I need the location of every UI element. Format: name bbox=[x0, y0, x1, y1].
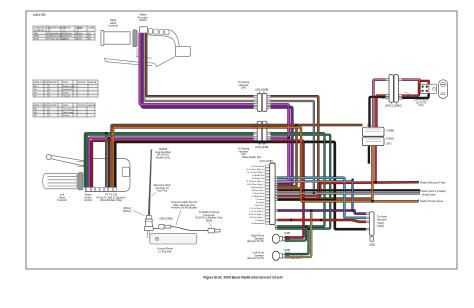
svg-text:[28AC] [28BC]: [28AC] [28BC] bbox=[385, 104, 402, 108]
switch housing pad bbox=[175, 46, 190, 56]
left control housing bbox=[85, 159, 130, 192]
svg-text:Only: Only bbox=[418, 103, 424, 107]
svg-text:15 Lt Rear Spkr (+): 15 Lt Rear Spkr (+) bbox=[246, 168, 265, 171]
wire red left control to 24A bbox=[92, 141, 254, 188]
svg-text:9 Memory B(+): 9 Memory B(+) bbox=[250, 187, 265, 189]
svg-text:[10B]: [10B] bbox=[369, 243, 375, 247]
wire gray 28B down to serial data bbox=[271, 101, 314, 193]
svg-text:8 Rear Gnd 2: 8 Rear Gnd 2 bbox=[252, 190, 266, 192]
svg-text:Power: Power bbox=[63, 92, 69, 94]
wire brown 28B down right side bbox=[271, 96, 374, 198]
svg-text:Switch: Switch bbox=[139, 18, 147, 22]
svg-text:14 Lt Rear Spkr (-): 14 Lt Rear Spkr (-) bbox=[247, 171, 265, 174]
switch buttons bbox=[149, 29, 170, 35]
svg-text:Tour Pak: Tour Pak bbox=[157, 189, 168, 193]
svg-text:[24A] [24B]: [24A] [24B] bbox=[255, 145, 268, 149]
wire magenta left control to 24A bbox=[89, 138, 253, 188]
radio pin stubs right bbox=[275, 177, 277, 230]
wire gray radio stub bbox=[278, 180, 352, 182]
wire gray switch to 28A bbox=[144, 33, 253, 101]
svg-text:24A PIN: 24A PIN bbox=[49, 104, 57, 107]
wire orange 249A to power fuse bbox=[371, 146, 373, 202]
accessory 4-pin block bbox=[420, 84, 429, 93]
wire green2 24B to radio bbox=[271, 135, 331, 229]
svg-text:Behind fairing: Behind fairing bbox=[50, 36, 62, 38]
wire green branch right speaker bbox=[285, 226, 306, 240]
pin labels 24A 24B bbox=[250, 125, 275, 144]
svg-text:1 Lt Frt Spkr (-): 1 Lt Frt Spkr (-) bbox=[250, 210, 265, 213]
wire red 249A to memory fuse bbox=[375, 146, 377, 182]
wire magenta switch to 28A bbox=[140, 33, 254, 105]
label radio power fuse bbox=[417, 199, 419, 202]
connector 28A 28B bbox=[257, 93, 267, 111]
wire violet 28B to radio bbox=[271, 107, 292, 184]
svg-text:GAUGE: GAUGE bbox=[88, 104, 96, 107]
radio pin boxes bbox=[265, 165, 269, 224]
svg-text:2 Lt Frt Spkr (+): 2 Lt Frt Spkr (+) bbox=[250, 207, 265, 210]
svg-text:Base Radio (9n): Base Radio (9n) bbox=[243, 155, 262, 159]
svg-text:LOCATION: LOCATION bbox=[34, 29, 45, 32]
svg-text:[249A]: [249A] bbox=[387, 137, 395, 141]
switch housing outline bbox=[147, 30, 180, 47]
svg-text:Radio Power Fuse: Radio Power Fuse bbox=[420, 199, 443, 203]
svg-text:24B PIN: 24B PIN bbox=[78, 105, 86, 107]
wire pink 249B to 28AC bbox=[373, 80, 385, 127]
wire gray serial data bbox=[278, 192, 421, 194]
wire violet switch to 28A bbox=[142, 33, 253, 107]
speaker left front bbox=[272, 251, 279, 260]
wire olive stub bbox=[105, 133, 107, 187]
parts table 1 bbox=[33, 26, 95, 40]
ground plane box bbox=[150, 234, 197, 244]
svg-text:4 Ignition: 4 Ignition bbox=[256, 201, 265, 204]
audio harness connector bbox=[369, 212, 374, 235]
wire red 249B to 28AC bbox=[376, 96, 385, 128]
wire black rear gnd bbox=[278, 189, 421, 191]
wire black 249B to 28AC bbox=[370, 97, 386, 127]
svg-text:[249B]: [249B] bbox=[387, 129, 395, 133]
wire green1 left control to 24A bbox=[85, 133, 254, 187]
wire brown riser to radio bbox=[278, 125, 297, 186]
svg-text:13 Audio Pwr: 13 Audio Pwr bbox=[252, 174, 265, 177]
radio connector 27A 27B bbox=[271, 161, 274, 164]
svg-text:Battery: Battery bbox=[63, 114, 69, 117]
svg-text:(B?): (B?) bbox=[387, 142, 392, 146]
wire red 28BC to outlet bbox=[402, 81, 429, 96]
svg-text:TYPE: TYPE bbox=[65, 28, 71, 30]
border frame bbox=[26, 11, 457, 269]
wire orange left control to power fuse bbox=[113, 127, 418, 201]
svg-text:7 Serial Data: 7 Serial Data bbox=[252, 192, 265, 195]
parts table 3 bbox=[33, 103, 95, 117]
wire red radio memory fuse bbox=[278, 182, 419, 196]
svg-text:(Ultra Models Only): (Ultra Models Only) bbox=[100, 198, 122, 202]
svg-text:[14B]: [14B] bbox=[284, 231, 290, 235]
wire orange radio power fuse bbox=[278, 187, 302, 189]
svg-text:SIZE: SIZE bbox=[79, 28, 84, 30]
accessory plug body bbox=[429, 84, 436, 93]
housing teeth bbox=[87, 187, 117, 191]
svg-text:Present On All Models: Present On All Models bbox=[171, 206, 197, 210]
throttle flange bbox=[133, 30, 137, 47]
connector 24A 24B bbox=[257, 121, 267, 143]
svg-text:CONN: CONN bbox=[88, 28, 94, 30]
svg-text:ed04769: ed04769 bbox=[33, 13, 46, 17]
svg-text:Control: Control bbox=[84, 198, 93, 202]
antenna cable wire bbox=[153, 227, 208, 231]
svg-text:[39C1]: [39C1] bbox=[123, 209, 131, 213]
svg-text:E Rt Frt Spkr (+): E Rt Frt Spkr (+) bbox=[249, 213, 265, 216]
pin labels 28A 28B bbox=[250, 96, 275, 109]
svg-text:std: std bbox=[79, 37, 82, 40]
power outlet socket bbox=[439, 80, 448, 99]
svg-text:6 CB Antenna: 6 CB Antenna bbox=[251, 195, 265, 198]
wire black thick radio stub bbox=[278, 199, 335, 201]
ground stud into plane bbox=[147, 231, 150, 238]
svg-text:12 Audio Gnd: 12 Audio Gnd bbox=[252, 177, 266, 180]
housing notch bbox=[122, 167, 129, 176]
svg-text:249B: 249B bbox=[34, 38, 39, 40]
svg-text:Controls: Controls bbox=[57, 198, 67, 202]
svg-text:[24B]: [24B] bbox=[284, 248, 290, 252]
left hand grip bbox=[43, 174, 77, 189]
wire magenta 28B to radio bbox=[271, 105, 289, 182]
svg-text:Ground: Ground bbox=[63, 96, 70, 98]
radio pin list text bbox=[246, 165, 265, 225]
svg-text:INTERCONN: INTERCONN bbox=[50, 28, 62, 30]
wire pink 28BC to outlet bbox=[402, 80, 419, 84]
wire tan to left speaker bbox=[285, 211, 312, 258]
svg-text:16 Orientation: 16 Orientation bbox=[251, 165, 265, 168]
label radio memory fuse bbox=[417, 181, 419, 184]
junction dots bbox=[105, 124, 377, 230]
svg-text:WIRE COLOR: WIRE COLOR bbox=[34, 82, 47, 84]
wire green branch left speaker bbox=[285, 229, 309, 254]
svg-text:(Except FLHT): (Except FLHT) bbox=[247, 239, 264, 243]
speaker right front bbox=[272, 234, 279, 243]
svg-text:Controls: Controls bbox=[108, 24, 118, 28]
switch housing connector bbox=[139, 27, 147, 33]
wire black 28BC to outlet bbox=[402, 93, 429, 98]
wire black stub below 249A bbox=[368, 146, 370, 163]
svg-text:D Rt Frt Spkr (-): D Rt Frt Spkr (-) bbox=[249, 216, 265, 219]
parts table 2 bbox=[33, 80, 98, 97]
grip flange bbox=[78, 173, 83, 190]
svg-text:FUNC: FUNC bbox=[63, 82, 69, 84]
wire green2 left control to 24A bbox=[87, 135, 254, 188]
pin labels 249B bbox=[367, 125, 379, 127]
connector 249B 249A bbox=[363, 127, 385, 145]
wire green1 24B to radio bbox=[271, 133, 325, 226]
svg-text:11 Rt Rear Spkr (+): 11 Rt Rear Spkr (+) bbox=[246, 180, 265, 183]
svg-text:In Tour Pak: In Tour Pak bbox=[158, 249, 172, 253]
wire maroon stub bbox=[108, 138, 110, 188]
svg-text:Radio Memory Fuse: Radio Memory Fuse bbox=[420, 180, 446, 184]
svg-text:[39A] [39B]: [39A] [39B] bbox=[160, 217, 173, 221]
svg-text:28B PIN: 28B PIN bbox=[78, 82, 86, 84]
antenna mast bbox=[148, 150, 152, 215]
svg-text:Right audio: Right audio bbox=[63, 111, 74, 114]
wire red radio to audio harness bbox=[278, 220, 366, 222]
wire magenta 24B joins riser bbox=[271, 137, 289, 139]
svg-text:[10B]: [10B] bbox=[378, 224, 384, 228]
svg-text:mini: mini bbox=[79, 33, 83, 35]
svg-text:28AC: 28AC bbox=[34, 35, 40, 38]
clutch lever bbox=[46, 154, 51, 159]
antenna cable connector bbox=[159, 224, 171, 229]
svg-text:Handlebar sw: Handlebar sw bbox=[50, 33, 63, 35]
svg-text:Mol/Pac: Mol/Pac bbox=[65, 36, 72, 38]
wire violet radio to audio harness bbox=[278, 211, 366, 214]
svg-text:Audio control: Audio control bbox=[63, 85, 75, 88]
wire brown left control to 249B bbox=[112, 125, 363, 187]
svg-text:Serial data: Serial data bbox=[63, 88, 73, 91]
svg-text:FUNC: FUNC bbox=[63, 105, 69, 107]
svg-text:[39A]: [39A] bbox=[206, 218, 212, 222]
svg-text:10 Rt Rear Spkr (-): 10 Rt Rear Spkr (-) bbox=[247, 183, 265, 186]
pin labels 28AC 28BC bbox=[382, 80, 407, 101]
antenna base assembly bbox=[144, 216, 153, 231]
svg-text:WIRE COLOR: WIRE COLOR bbox=[34, 105, 47, 107]
housing lower line bbox=[136, 48, 152, 58]
wire brown switch to 28A bbox=[146, 33, 253, 96]
svg-text:Figure B-32. 2009 Basic Radio: Figure B-32. 2009 Basic Radio Interconne… bbox=[203, 276, 283, 280]
label rear gnd serial data bbox=[419, 189, 421, 192]
svg-text:(9A): (9A) bbox=[241, 86, 246, 90]
connector 28AC 28BC bbox=[389, 75, 398, 103]
svg-text:5 Ground: 5 Ground bbox=[256, 199, 266, 201]
right hand grip bbox=[101, 31, 130, 46]
svg-text:28A PIN: 28A PIN bbox=[49, 81, 57, 84]
svg-text:(Except FLHT): (Except FLHT) bbox=[247, 256, 264, 260]
svg-text:Under fairing cap: Under fairing cap bbox=[50, 38, 66, 40]
svg-text:B Illumination: B Illumination bbox=[252, 222, 266, 225]
svg-text:3 Pwr B(+): 3 Pwr B(+) bbox=[254, 205, 264, 207]
wire black left control to audio harness bbox=[115, 142, 365, 229]
wire outlines bbox=[85, 33, 429, 257]
svg-text:Harness: Harness bbox=[377, 217, 387, 221]
svg-text:GAUGE: GAUGE bbox=[89, 81, 97, 84]
svg-text:Mobile Only: Mobile Only bbox=[156, 155, 170, 159]
cable end connector bbox=[208, 228, 220, 233]
svg-text:[28A] [28B]: [28A] [28B] bbox=[255, 88, 268, 92]
svg-text:Left audio: Left audio bbox=[63, 108, 73, 111]
svg-text:Serial Data: Serial Data bbox=[422, 192, 436, 196]
wire blue riser bbox=[352, 180, 354, 211]
wire red 24B to right speaker bbox=[271, 141, 304, 238]
wire cyan radio to audio harness bbox=[278, 178, 366, 218]
svg-text:C Dimmer: C Dimmer bbox=[255, 220, 265, 222]
handlebar tube bbox=[77, 162, 129, 167]
svg-text:mini: mini bbox=[79, 36, 83, 38]
brake lever bbox=[104, 57, 176, 67]
svg-text:Mol/Pac: Mol/Pac bbox=[65, 33, 72, 35]
